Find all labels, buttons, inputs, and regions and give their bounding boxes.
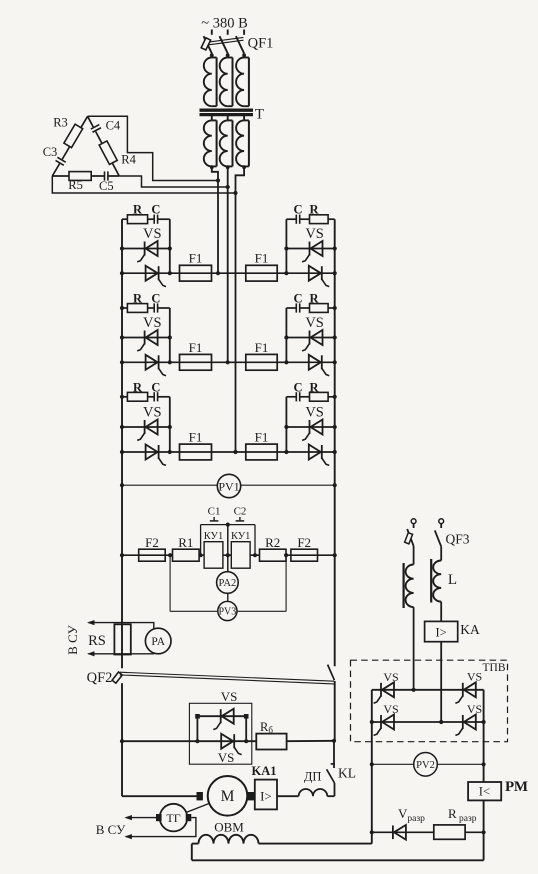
svg-text:R1: R1 <box>178 535 193 550</box>
svg-text:~ 380 В: ~ 380 В <box>201 16 248 32</box>
svg-text:C3: C3 <box>43 145 58 159</box>
svg-text:F1: F1 <box>189 430 203 445</box>
svg-text:R: R <box>309 203 319 217</box>
svg-text:R: R <box>133 203 143 217</box>
svg-text:F1: F1 <box>255 251 269 266</box>
svg-text:C2: C2 <box>234 505 247 517</box>
svg-text:C5: C5 <box>99 179 114 193</box>
svg-text:QF2: QF2 <box>87 670 113 686</box>
svg-text:R: R <box>309 292 319 306</box>
svg-text:VS: VS <box>143 405 162 421</box>
svg-text:R: R <box>133 292 143 306</box>
svg-text:VS: VS <box>305 315 324 331</box>
svg-text:VS: VS <box>305 226 324 242</box>
svg-text:PA: PA <box>151 636 165 648</box>
svg-text:VS: VS <box>218 750 235 765</box>
svg-text:KA: KA <box>460 622 480 637</box>
svg-text:R: R <box>309 380 319 394</box>
svg-text:C4: C4 <box>106 119 121 133</box>
svg-text:М: М <box>221 788 235 805</box>
svg-text:VS: VS <box>383 702 398 716</box>
svg-text:I<: I< <box>479 784 490 798</box>
svg-text:R4: R4 <box>121 153 136 167</box>
svg-text:C1: C1 <box>208 505 221 517</box>
svg-text:VS: VS <box>467 702 482 716</box>
svg-text:VS: VS <box>143 226 162 242</box>
svg-text:C: C <box>151 292 160 306</box>
svg-text:PV1: PV1 <box>218 479 239 493</box>
svg-text:VS: VS <box>467 670 482 684</box>
svg-text:В СУ: В СУ <box>96 822 126 837</box>
svg-text:PV2: PV2 <box>416 760 435 771</box>
svg-text:КУ1: КУ1 <box>204 531 223 542</box>
svg-text:F1: F1 <box>189 340 203 355</box>
svg-text:ОВМ: ОВМ <box>214 820 244 835</box>
svg-text:В СУ: В СУ <box>65 624 80 654</box>
svg-text:QF1: QF1 <box>248 36 274 52</box>
svg-text:VS: VS <box>305 405 324 421</box>
svg-text:L: L <box>448 572 457 588</box>
svg-text:I>: I> <box>260 789 272 804</box>
svg-text:R5: R5 <box>68 178 83 192</box>
svg-text:PV3: PV3 <box>219 606 237 617</box>
svg-text:F2: F2 <box>145 535 159 550</box>
svg-text:C: C <box>293 292 302 306</box>
svg-text:F1: F1 <box>255 430 269 445</box>
svg-text:VS: VS <box>383 670 398 684</box>
svg-text:Т: Т <box>255 107 264 123</box>
svg-text:I>: I> <box>435 625 446 639</box>
svg-text:F1: F1 <box>189 251 203 266</box>
svg-text:RS: RS <box>88 633 106 649</box>
svg-text:R3: R3 <box>53 116 68 130</box>
svg-text:F2: F2 <box>297 535 311 550</box>
svg-text:KA1: KA1 <box>252 764 277 778</box>
svg-text:VS: VS <box>221 689 238 704</box>
svg-text:РМ: РМ <box>505 779 528 795</box>
svg-text:ТПВ: ТПВ <box>483 662 506 674</box>
svg-text:C: C <box>151 380 160 394</box>
svg-text:VS: VS <box>143 315 162 331</box>
svg-text:R2: R2 <box>265 535 280 550</box>
svg-text:ТГ: ТГ <box>166 811 180 825</box>
svg-text:C: C <box>293 203 302 217</box>
svg-text:КУ1: КУ1 <box>231 531 250 542</box>
svg-text:PA2: PA2 <box>219 578 237 589</box>
svg-text:R: R <box>133 380 143 394</box>
svg-text:F1: F1 <box>255 340 269 355</box>
svg-text:QF3: QF3 <box>445 532 469 547</box>
svg-text:KL: KL <box>338 766 356 781</box>
svg-text:C: C <box>293 380 302 394</box>
svg-text:ДП: ДП <box>304 769 322 783</box>
svg-text:C: C <box>151 203 160 217</box>
